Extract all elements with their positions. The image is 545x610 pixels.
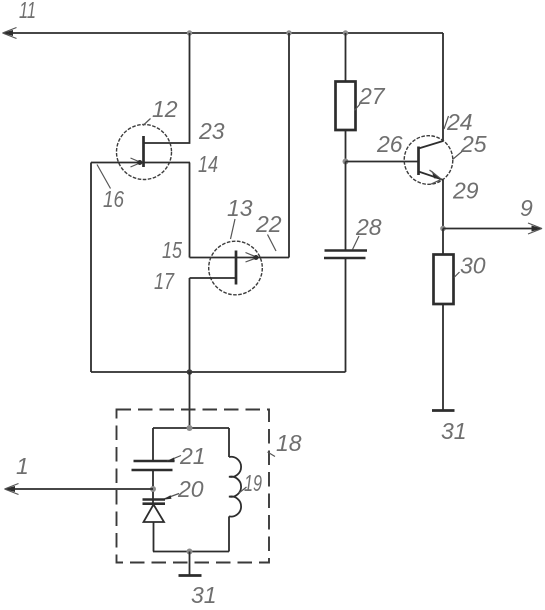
capacitor C28 bottom plate xyxy=(324,257,366,260)
capacitor C21 bottom plate xyxy=(132,469,173,472)
leader for 27 xyxy=(355,104,361,111)
leader for 16 xyxy=(97,165,111,189)
VT24 collector stroke xyxy=(419,141,444,149)
wire: rail down to resistor R27 xyxy=(345,33,347,82)
transistor VT24 (BJT, circle) xyxy=(404,136,453,185)
wire: top supply rail xyxy=(5,32,443,34)
leader for 21 (with arrow) xyxy=(166,456,181,462)
svg-text:19: 19 xyxy=(244,470,262,496)
wire: from bus down into the tank box xyxy=(189,372,191,428)
wire: right vertical from rail corner down to VT24 collector xyxy=(442,33,444,141)
svg-text:12: 12 xyxy=(152,96,178,122)
node: rail junction at resistor 27 branch xyxy=(343,30,348,35)
wire: output node down to resistor R30 xyxy=(442,229,444,255)
wire: control line 1 xyxy=(7,488,153,490)
leader for 18 xyxy=(268,452,276,457)
svg-text:30: 30 xyxy=(460,253,486,279)
svg-text:18: 18 xyxy=(276,430,302,456)
leader for 25 xyxy=(453,152,463,160)
wire: base node to VT24 base xyxy=(346,161,419,163)
svg-text:9: 9 xyxy=(520,195,533,221)
resistor R27 xyxy=(336,82,356,131)
wire: R27 to base node xyxy=(345,130,347,162)
leader for 24 xyxy=(444,116,449,129)
ground 31 (bottom) xyxy=(179,574,202,577)
wire: output line 9 xyxy=(443,228,538,230)
wire: R30 down to ground xyxy=(442,304,444,411)
node: tank bottom junction xyxy=(187,549,193,555)
svg-text:1: 1 xyxy=(16,453,29,479)
svg-text:11: 11 xyxy=(19,0,36,23)
inductor L19 xyxy=(229,457,241,517)
wire: varicap to tank bottom bus xyxy=(153,522,155,552)
node: control junction xyxy=(150,486,156,492)
wire: tank right branch lower segment xyxy=(228,516,230,551)
varicap VD20 cathode bars xyxy=(143,500,166,504)
svg-text:16: 16 xyxy=(103,186,124,212)
wire: tank top bus xyxy=(153,427,229,429)
transistor VT13 (FET, circle) xyxy=(209,241,263,295)
leader for 28 xyxy=(353,236,360,250)
arrow terminal 11 (left-pointing) xyxy=(2,28,17,39)
arrow terminal 9 (right-pointing) xyxy=(528,223,543,234)
ground 31 (right) xyxy=(432,409,455,412)
VT24 emitter arrow xyxy=(430,170,442,185)
svg-text:26: 26 xyxy=(376,131,403,157)
node: output junction xyxy=(440,226,446,232)
VT24 emitter stroke xyxy=(419,172,444,180)
transistor VT12 (FET, circle) xyxy=(117,125,172,180)
svg-text:13: 13 xyxy=(227,195,253,221)
VT12 gate arrow and dot xyxy=(131,158,143,167)
capacitor C28 top plate xyxy=(325,249,368,252)
VT13 gate arrow and dot xyxy=(246,253,259,263)
leader for 19 xyxy=(239,487,247,493)
node: base node junction xyxy=(343,159,349,165)
VT12 gate/source line (crossing) xyxy=(91,162,190,164)
wire 23: from rail down to VT12 drain xyxy=(144,33,190,143)
wire 16: gate of VT12 down the left side xyxy=(90,163,92,373)
svg-text:29: 29 xyxy=(452,178,479,204)
VT24 base bar xyxy=(417,147,420,176)
varicap VD20 triangle xyxy=(144,505,165,523)
svg-text:27: 27 xyxy=(358,83,386,109)
svg-text:31: 31 xyxy=(191,582,217,605)
wire: tank left branch to C21 xyxy=(152,428,154,461)
leader for 22 xyxy=(268,235,277,252)
svg-text:17: 17 xyxy=(154,268,175,294)
svg-text:15: 15 xyxy=(162,237,182,263)
dashed block 18 xyxy=(117,410,270,563)
capacitor C21 top plate xyxy=(134,460,175,463)
VT13 channel bar xyxy=(235,251,238,285)
wire: bottom horizontal bus xyxy=(91,371,346,373)
arrow terminal 1 (left-pointing) xyxy=(4,484,19,495)
svg-text:23: 23 xyxy=(198,118,225,144)
svg-text:22: 22 xyxy=(255,211,282,237)
wire: emitter down to output node xyxy=(442,180,444,229)
wire 22: up to the rail xyxy=(288,33,290,258)
leader for 12 xyxy=(143,119,151,126)
VT12 channel bar xyxy=(142,136,145,167)
resistor R30 xyxy=(434,255,454,305)
svg-text:25: 25 xyxy=(460,131,487,157)
leader for 30 xyxy=(454,272,460,278)
wire 15/22: VT13 drain line and gate line across xyxy=(190,257,290,259)
wire: tank right branch upper segment xyxy=(228,428,230,457)
node: rail junction at wire 23 xyxy=(187,30,192,35)
svg-text:31: 31 xyxy=(441,418,467,444)
wire 14: VT12 source down to VT13 drain line xyxy=(189,163,191,258)
node: tank top junction xyxy=(187,425,193,431)
wire: tank bottom bus xyxy=(153,551,229,553)
node: rail junction at wire 22 xyxy=(286,30,291,35)
wire: base node down to capacitor C28 xyxy=(345,162,347,251)
svg-text:21: 21 xyxy=(179,443,206,469)
wire: tank bottom to ground xyxy=(189,552,191,576)
wire: VT13 source down to bottom bus xyxy=(189,278,191,372)
leader for 13 xyxy=(231,219,236,239)
wire: C28 down to bottom bus xyxy=(345,258,347,372)
node: junction of source wire and bottom bus xyxy=(187,369,193,375)
wire: C21 to varicap node xyxy=(152,470,154,506)
wire 17: VT13 source line xyxy=(190,277,237,279)
leader for 20 xyxy=(164,494,179,500)
svg-text:20: 20 xyxy=(177,476,204,502)
svg-text:14: 14 xyxy=(198,151,218,177)
